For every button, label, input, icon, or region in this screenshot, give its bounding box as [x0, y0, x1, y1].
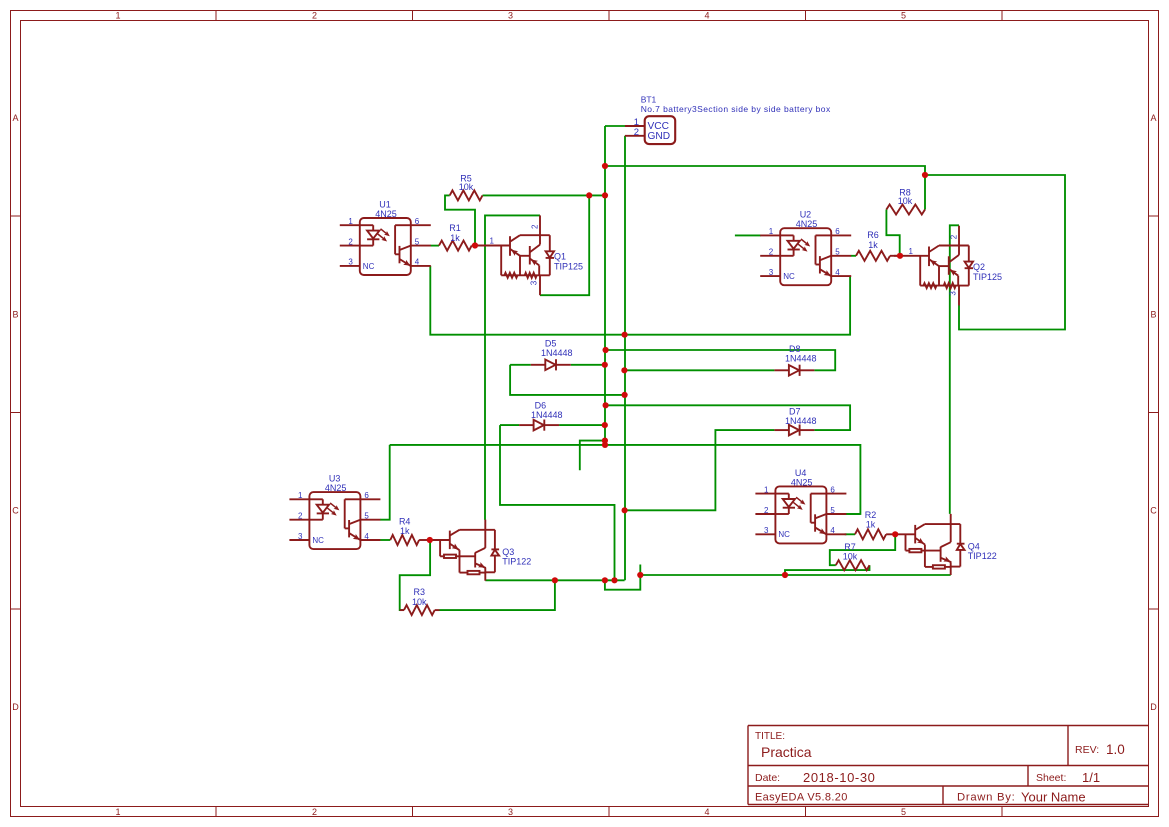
- svg-text:10k: 10k: [412, 597, 427, 607]
- svg-text:Practica: Practica: [761, 744, 812, 760]
- wire U1 pin4 to GND rail: [430, 266, 850, 335]
- svg-text:4: 4: [704, 807, 709, 817]
- wire R7 left loop to node D: [830, 534, 895, 565]
- wire VCC bus vertical: [604, 126, 606, 445]
- wire bottom bus to U3 pin5: [380, 445, 390, 520]
- junction GND U1 pin4 rail: [622, 332, 628, 338]
- svg-text:4N25: 4N25: [325, 483, 347, 493]
- transistor Q1: [475, 215, 583, 295]
- svg-text:NC: NC: [363, 262, 375, 271]
- wire U2 pin5 to R6: [851, 255, 856, 257]
- svg-text:3: 3: [508, 807, 513, 817]
- wire U4 pin4 to R2: [845, 533, 855, 535]
- svg-text:Q2: Q2: [973, 262, 985, 272]
- svg-text:3: 3: [348, 258, 353, 267]
- svg-text:BT1: BT1: [641, 95, 657, 105]
- resistor R2: [855, 510, 895, 539]
- svg-text:A: A: [12, 113, 18, 123]
- svg-text:1: 1: [490, 237, 495, 246]
- wire U2 pin1 stub: [735, 234, 761, 236]
- svg-text:B: B: [1150, 310, 1156, 320]
- svg-text:2: 2: [312, 10, 317, 20]
- svg-text:4: 4: [704, 10, 709, 20]
- svg-text:R6: R6: [867, 230, 879, 240]
- diode D7: [774, 407, 816, 436]
- junction node C R4 Q3: [427, 537, 433, 543]
- svg-text:1k: 1k: [400, 526, 410, 536]
- svg-text:R3: R3: [414, 587, 426, 597]
- junction D5 VCC: [602, 362, 608, 368]
- wire D5 line: [510, 364, 531, 366]
- svg-text:Q3: Q3: [502, 547, 514, 557]
- svg-text:R7: R7: [844, 542, 856, 552]
- svg-text:Q4: Q4: [968, 541, 980, 551]
- wire stub above node E: [639, 565, 641, 576]
- svg-text:EasyEDA V5.8.20: EasyEDA V5.8.20: [755, 792, 848, 804]
- junction D7 GND: [622, 507, 628, 513]
- wire R3 loop right: [440, 580, 555, 610]
- svg-text:C: C: [1150, 506, 1157, 516]
- diode D5: [531, 339, 573, 371]
- diode D8: [774, 344, 816, 376]
- transistor Q3: [430, 520, 532, 581]
- junction node E: [637, 572, 643, 578]
- wire D8 cathode loop to VCC bus: [606, 350, 836, 370]
- wire R5 to VCC bus: [483, 194, 606, 196]
- wire U3 pin4 to R4: [380, 539, 390, 541]
- junction D7 VCC: [603, 402, 609, 408]
- wire stub near VCC bus: [580, 441, 605, 471]
- svg-text:A: A: [1150, 113, 1156, 123]
- svg-text:5: 5: [901, 807, 906, 817]
- svg-text:10k: 10k: [898, 196, 913, 206]
- wire R8 left loop to node B: [886, 210, 899, 256]
- resistor R1: [439, 223, 475, 251]
- svg-text:1k: 1k: [866, 520, 876, 530]
- svg-text:GND: GND: [648, 131, 671, 142]
- svg-text:1N4448: 1N4448: [531, 410, 563, 420]
- svg-text:2: 2: [312, 807, 317, 817]
- svg-text:1.0: 1.0: [1106, 742, 1125, 757]
- wire D7 cathode loop to VCC bus: [606, 405, 851, 430]
- junction emitter jog: [602, 577, 608, 583]
- wire R5 left loop to node A: [445, 195, 475, 245]
- junction R7 branch: [782, 572, 788, 578]
- svg-text:5: 5: [364, 512, 369, 521]
- transistor Q2: [894, 226, 1002, 306]
- svg-text:5: 5: [901, 10, 906, 20]
- svg-text:3: 3: [949, 291, 958, 296]
- svg-text:2: 2: [298, 512, 303, 521]
- svg-text:1N4448: 1N4448: [541, 348, 573, 358]
- svg-text:6: 6: [415, 217, 420, 226]
- svg-text:TIP122: TIP122: [502, 557, 531, 567]
- wire U1 pin5 to R1: [430, 245, 439, 247]
- svg-text:4: 4: [835, 268, 840, 277]
- resistor R4: [390, 517, 430, 545]
- svg-text:2: 2: [950, 234, 959, 239]
- svg-text:1: 1: [115, 10, 120, 20]
- optocoupler U2: [760, 210, 851, 286]
- svg-text:4N25: 4N25: [375, 209, 397, 219]
- resistor R7: [836, 542, 870, 570]
- svg-text:6: 6: [835, 227, 840, 236]
- svg-text:10k: 10k: [459, 182, 474, 192]
- svg-text:Date:: Date:: [755, 772, 780, 784]
- svg-text:1: 1: [298, 491, 303, 500]
- svg-text:2: 2: [531, 224, 540, 229]
- svg-text:1N4448: 1N4448: [785, 416, 817, 426]
- svg-text:3: 3: [530, 280, 539, 285]
- svg-text:TIP125: TIP125: [554, 262, 583, 272]
- wire D8 anode from GND bus: [624, 369, 774, 371]
- svg-text:5: 5: [415, 237, 420, 246]
- wire VCC branch right: [605, 166, 925, 210]
- junction D5 GND: [622, 392, 628, 398]
- wire VCC to Q2 emitter loop: [925, 175, 1065, 330]
- svg-text:D7: D7: [789, 407, 801, 417]
- svg-text:4N25: 4N25: [796, 219, 818, 229]
- svg-text:3: 3: [764, 526, 769, 535]
- svg-text:R2: R2: [865, 510, 877, 520]
- svg-text:R1: R1: [449, 223, 461, 233]
- wire Q1 emitter to VCC: [540, 195, 589, 295]
- optocoupler U3: [289, 474, 380, 549]
- svg-text:U4: U4: [795, 468, 807, 478]
- svg-text:1: 1: [115, 807, 120, 817]
- resistor R5: [450, 174, 483, 201]
- svg-text:4: 4: [415, 258, 420, 267]
- junction D8 GND: [621, 367, 627, 373]
- svg-text:1k: 1k: [868, 240, 878, 250]
- svg-text:6: 6: [364, 491, 369, 500]
- wire Q1 collector to Q3 collector: [485, 215, 540, 520]
- svg-text:2: 2: [764, 506, 769, 515]
- svg-text:1: 1: [909, 247, 914, 256]
- wire D7 anode from GND bus: [625, 430, 775, 510]
- svg-text:2: 2: [634, 127, 639, 138]
- svg-text:3: 3: [508, 10, 513, 20]
- wire Q3 emitter line: [485, 579, 624, 581]
- svg-text:4: 4: [364, 532, 369, 541]
- svg-text:1/1: 1/1: [1082, 770, 1100, 785]
- svg-text:2018-10-30: 2018-10-30: [803, 770, 876, 785]
- svg-text:TIP122: TIP122: [968, 551, 997, 561]
- svg-text:D: D: [12, 702, 19, 712]
- wire D6 line left: [500, 424, 519, 426]
- junction node B R6 R8 Q2: [897, 253, 903, 259]
- svg-text:2: 2: [769, 248, 774, 257]
- svg-text:NC: NC: [778, 530, 790, 539]
- transistor Q4: [895, 514, 997, 575]
- svg-text:D5: D5: [545, 339, 557, 349]
- wire D6 anode drop: [500, 425, 615, 580]
- junction stub VCC: [602, 438, 608, 444]
- junction VCC branch: [602, 163, 608, 169]
- svg-text:3: 3: [298, 532, 303, 541]
- wire GND bus vertical from BT1 pin2: [624, 136, 626, 581]
- svg-text:Your Name: Your Name: [1021, 790, 1086, 805]
- wire emitter line to Q4 pin3: [640, 574, 950, 576]
- junction VCC bottom bus: [602, 442, 608, 448]
- svg-text:1: 1: [764, 485, 769, 494]
- wire U4 pin5 lead: [845, 513, 860, 515]
- svg-text:10k: 10k: [843, 551, 858, 561]
- wire bottom bus: [390, 445, 861, 514]
- svg-text:TIP125: TIP125: [973, 272, 1002, 282]
- svg-text:4: 4: [830, 526, 835, 535]
- svg-text:4N25: 4N25: [791, 477, 813, 487]
- svg-text:U2: U2: [800, 210, 812, 220]
- svg-text:Drawn By:: Drawn By:: [957, 792, 1015, 804]
- junction node D R2 Q4: [892, 531, 898, 537]
- svg-text:1: 1: [769, 227, 774, 236]
- svg-text:U1: U1: [379, 200, 391, 210]
- wire emitter jog to Q4: [605, 575, 640, 590]
- svg-text:1N4448: 1N4448: [785, 353, 817, 363]
- svg-text:R4: R4: [399, 517, 411, 527]
- svg-text:1k: 1k: [450, 233, 460, 243]
- svg-text:3: 3: [769, 268, 774, 277]
- junction VCC right branch: [922, 172, 928, 178]
- optocoupler U4: [755, 468, 846, 544]
- svg-text:REV:: REV:: [1075, 744, 1099, 756]
- junction D6 VCC: [602, 422, 608, 428]
- svg-text:1: 1: [348, 217, 353, 226]
- wire R3 loop left to node C: [400, 540, 430, 610]
- junction Q1 emitter VCC: [586, 192, 592, 198]
- svg-text:C: C: [12, 506, 19, 516]
- resistor R8: [886, 188, 925, 215]
- wire R7 branch: [785, 565, 870, 575]
- battery connector BT1: [625, 95, 831, 145]
- diode D6: [519, 401, 562, 431]
- resistor R3: [400, 587, 440, 615]
- wire Q2 collector to Q4 collector: [950, 225, 959, 514]
- svg-text:TITLE:: TITLE:: [755, 731, 785, 742]
- junction D6 emitter: [611, 577, 617, 583]
- svg-text:NC: NC: [312, 536, 324, 545]
- svg-text:No.7 battery3Section side by s: No.7 battery3Section side by side batter…: [641, 104, 831, 114]
- svg-text:Q1: Q1: [554, 252, 566, 262]
- junction R3 emitter: [552, 577, 558, 583]
- wire D6 cathode to VCC bus: [559, 424, 605, 426]
- junction node A R1 R5 Q1: [472, 242, 478, 248]
- svg-text:2: 2: [348, 237, 353, 246]
- svg-text:U3: U3: [329, 474, 341, 484]
- svg-text:5: 5: [835, 248, 840, 257]
- svg-text:5: 5: [830, 506, 835, 515]
- svg-text:6: 6: [830, 485, 835, 494]
- wire D5 anode loop to GND bus: [510, 365, 624, 395]
- svg-text:NC: NC: [783, 272, 795, 281]
- svg-text:D: D: [1150, 702, 1157, 712]
- title block: [748, 726, 1149, 805]
- resistor R6: [856, 230, 900, 261]
- wire BT1 pin1 to VCC bus: [605, 125, 625, 127]
- junction D8 VCC: [603, 347, 609, 353]
- svg-text:Sheet:: Sheet:: [1036, 772, 1066, 784]
- svg-text:B: B: [12, 310, 18, 320]
- junction R5 VCC: [602, 192, 608, 198]
- wire D5 cathode to VCC bus: [571, 364, 605, 366]
- optocoupler U1: [340, 200, 431, 276]
